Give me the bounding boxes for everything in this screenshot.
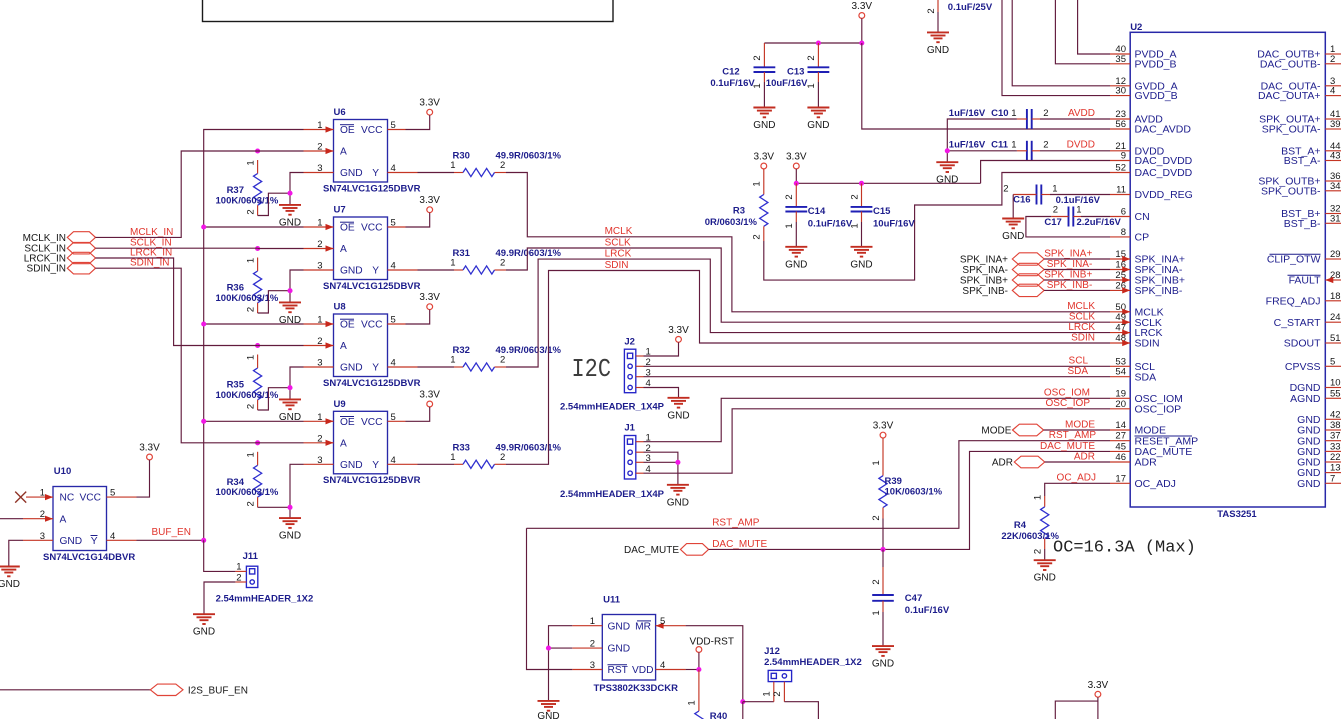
node junction (U8 OE)	[201, 321, 206, 326]
wire C11 pin1 branch	[947, 150, 1017, 152]
U2 pin 8 CP	[1110, 227, 1149, 244]
U2 pin 2 DAC_OUTB-	[1260, 54, 1341, 71]
svg-text:A: A	[60, 514, 67, 525]
svg-text:GND: GND	[608, 621, 631, 632]
capacitor C16 0.1uF/16V	[1003, 183, 1100, 206]
wire U8 Y to R32	[418, 366, 455, 368]
port SPK_INA+	[960, 253, 1044, 266]
svg-text:3: 3	[317, 163, 322, 174]
svg-text:SPK_INB+: SPK_INB+	[960, 276, 1008, 287]
wire U6 A junction to pin 2	[258, 150, 304, 152]
capacitor C17 2.2uF/16V	[1044, 204, 1121, 228]
svg-text:LRCK: LRCK	[1068, 322, 1095, 333]
wire J2 pin4 to ground	[644, 388, 679, 398]
svg-text:1: 1	[450, 355, 455, 366]
svg-text:OSC_IOM: OSC_IOM	[1044, 388, 1090, 399]
svg-text:1: 1	[762, 691, 773, 696]
svg-text:2: 2	[752, 55, 763, 60]
U2 pin 56 DAC_AVDD	[1110, 119, 1191, 136]
svg-text:1: 1	[590, 616, 595, 627]
svg-text:43: 43	[1330, 151, 1341, 162]
wire U10 GND to ground	[9, 540, 23, 566]
svg-text:C10: C10	[991, 108, 1008, 119]
wire MCLK_IN to U6 A	[96, 151, 258, 237]
svg-text:20: 20	[1115, 399, 1126, 410]
U2 pin 31 BST_B-	[1284, 213, 1341, 230]
wire OC_ADJ (R4 to U2 pin 17)	[1045, 483, 1110, 496]
svg-text:C13: C13	[787, 67, 804, 78]
svg-text:42: 42	[1330, 409, 1341, 420]
ground (U8)	[279, 399, 301, 423]
U2 pin 29 CLIP_OTW	[1267, 249, 1341, 266]
svg-text:SDA: SDA	[1135, 371, 1157, 383]
svg-text:VDD: VDD	[632, 665, 654, 676]
node junction (C15 top)	[859, 181, 864, 186]
ground (U9)	[279, 518, 301, 542]
svg-text:52: 52	[1115, 163, 1126, 174]
svg-text:Y: Y	[372, 363, 379, 374]
svg-text:10uF/16V: 10uF/16V	[766, 78, 808, 89]
svg-text:1: 1	[450, 160, 455, 171]
svg-text:4: 4	[391, 358, 396, 369]
svg-text:1: 1	[245, 160, 256, 165]
U2 pin 27 RESET_AMP	[1110, 431, 1198, 448]
svg-text:2: 2	[784, 194, 795, 199]
wire AVDD to U2	[1040, 118, 1110, 120]
svg-text:SPK_INA+: SPK_INA+	[960, 255, 1008, 266]
buffer U6 SN74LVC1G125DBVR	[304, 107, 421, 194]
U2 pin 1 DAC_OUTB+	[1257, 44, 1341, 61]
U2 pin 48 SDIN	[1110, 333, 1160, 350]
svg-text:SDIN_IN: SDIN_IN	[130, 258, 169, 269]
svg-text:SPK_INB+: SPK_INB+	[1044, 269, 1092, 280]
capacitor C12 0.1uF/16V	[710, 43, 775, 89]
svg-text:OC_ADJ: OC_ADJ	[1057, 473, 1096, 484]
U2 pin 19 OSC_IOM	[1110, 388, 1183, 405]
svg-text:DVDD: DVDD	[1067, 140, 1095, 151]
svg-text:2: 2	[245, 501, 256, 506]
svg-text:U10: U10	[54, 466, 71, 477]
svg-text:1: 1	[450, 258, 455, 269]
U2 pin 51 SDOUT	[1284, 333, 1341, 350]
port SPK_INB-	[962, 284, 1044, 297]
svg-text:3.3V: 3.3V	[419, 292, 440, 303]
power 3.3V (J2 pin 1)	[668, 325, 689, 342]
node junction (C10/C11 ground)	[945, 148, 950, 153]
svg-text:C15: C15	[873, 206, 891, 217]
svg-text:2: 2	[317, 142, 322, 153]
svg-text:GND: GND	[193, 627, 215, 638]
svg-text:SPK_INB-: SPK_INB-	[1047, 280, 1093, 291]
svg-text:4: 4	[660, 660, 665, 671]
resistor R33 49.9R/0603/1%	[450, 442, 561, 468]
svg-text:NC: NC	[60, 493, 75, 504]
svg-text:9: 9	[1121, 151, 1126, 162]
svg-text:VCC: VCC	[79, 493, 101, 504]
svg-text:GND: GND	[537, 711, 559, 719]
svg-text:3.3V: 3.3V	[668, 325, 689, 336]
svg-text:0R/0603/1%: 0R/0603/1%	[705, 217, 758, 228]
svg-text:GND: GND	[753, 120, 775, 131]
node junction (U9 OE)	[201, 419, 206, 424]
wire C15 to ground	[861, 222, 863, 247]
svg-text:3: 3	[317, 261, 322, 272]
U2 pin 26 SPK_INB-	[1110, 280, 1183, 297]
svg-text:GND: GND	[340, 266, 363, 277]
svg-text:DAC_DVDD: DAC_DVDD	[1135, 167, 1193, 179]
svg-text:Y: Y	[372, 460, 379, 471]
node junction (VDD-RST)	[696, 667, 701, 672]
ground (R4)	[1034, 560, 1056, 584]
svg-text:1: 1	[849, 223, 860, 228]
svg-text:2: 2	[317, 336, 322, 347]
capacitor C10 1uF/16V	[949, 108, 1049, 129]
wire U7 OE branch	[204, 226, 304, 228]
svg-text:MR: MR	[635, 621, 651, 632]
wire U11 MR to J12	[686, 626, 743, 702]
svg-text:SPK_OUTA-: SPK_OUTA-	[1262, 124, 1321, 136]
U2 pin 20 OSC_IOP	[1110, 399, 1181, 416]
svg-text:GND: GND	[340, 363, 363, 374]
IC U11 TPS3802K33DCKR	[572, 595, 685, 694]
power 3.3V (C12/C13 rail)	[852, 1, 873, 18]
svg-text:5: 5	[391, 412, 396, 423]
node junction on U9 A input	[255, 440, 260, 445]
port ADR	[992, 456, 1045, 468]
svg-text:2: 2	[926, 8, 937, 13]
power 3.3V (U9 VCC)	[419, 390, 440, 407]
U2 pin 46 ADR	[1110, 452, 1157, 469]
svg-text:1: 1	[1011, 140, 1016, 151]
svg-text:C17: C17	[1044, 217, 1061, 228]
power 3.3V (U6 VCC)	[419, 98, 440, 115]
connector J11 2.54mmHEADER_1X2	[216, 551, 314, 605]
svg-text:SDIN: SDIN	[1071, 332, 1095, 343]
wire 0.1uF/25V to ground	[937, 12, 939, 32]
capacitor C15 10uF/16V	[849, 183, 915, 229]
svg-text:1: 1	[1052, 183, 1057, 194]
capacitor C47 0.1uF/16V	[871, 549, 950, 616]
svg-text:46: 46	[1115, 452, 1126, 463]
svg-text:1: 1	[806, 83, 817, 88]
U2 pin 41 SPK_OUTA+	[1259, 109, 1341, 126]
svg-text:OSC_IOP: OSC_IOP	[1135, 403, 1182, 415]
U2 pin 28 FAULT	[1288, 270, 1341, 287]
svg-text:3: 3	[40, 531, 45, 542]
svg-text:22: 22	[1330, 452, 1341, 463]
svg-text:U7: U7	[334, 205, 346, 216]
svg-text:AVDD: AVDD	[1068, 108, 1095, 119]
wire GVDD_A from top edge to U2	[1012, 0, 1110, 86]
svg-text:2: 2	[1053, 204, 1058, 215]
svg-text:SPK_INA-: SPK_INA-	[1047, 259, 1093, 270]
svg-text:4: 4	[391, 261, 396, 272]
svg-text:0.1uF/25V: 0.1uF/25V	[948, 2, 993, 13]
U2 pin 5 CPVSS	[1285, 356, 1341, 373]
node junction (BUF_EN)	[201, 538, 206, 543]
node junction on U8 A input	[255, 343, 260, 348]
ground (C10/C11)	[936, 162, 958, 186]
svg-text:GND: GND	[1297, 478, 1321, 490]
svg-text:2: 2	[1043, 140, 1048, 151]
node junction (U9 ground)	[287, 505, 292, 510]
power 3.3V (C14/C15 rail)	[786, 152, 807, 169]
wire SCL (J2 pin2 to U2 pin 53)	[644, 365, 1111, 367]
svg-text:2: 2	[500, 452, 505, 463]
svg-text:2.54mmHEADER_1X2: 2.54mmHEADER_1X2	[216, 594, 314, 605]
svg-text:U8: U8	[334, 302, 346, 313]
U2 pin 16 SPK_INA-	[1110, 260, 1183, 277]
svg-text:1uF/16V: 1uF/16V	[949, 108, 986, 119]
wire LRCK net (R32 out to U2 pin 47)	[506, 259, 1110, 367]
ground (U6)	[279, 205, 301, 229]
wire C16 to U2 pin 11	[1050, 194, 1110, 196]
wire 3.3V to U8 pin 5	[406, 310, 430, 324]
svg-text:8: 8	[1121, 227, 1126, 238]
svg-text:1uF/16V: 1uF/16V	[949, 140, 986, 151]
svg-text:FAULT: FAULT	[1289, 275, 1321, 287]
svg-text:GVDD_B: GVDD_B	[1135, 90, 1178, 102]
svg-text:1: 1	[317, 412, 322, 423]
svg-text:J1: J1	[624, 423, 635, 434]
svg-text:SDOUT: SDOUT	[1284, 338, 1321, 350]
svg-text:1: 1	[450, 452, 455, 463]
ground (U7)	[279, 302, 301, 326]
svg-text:1: 1	[871, 610, 882, 615]
svg-text:37: 37	[1330, 431, 1341, 442]
buffer U8 SN74LVC1G125DBVR	[304, 302, 421, 389]
port SDIN_IN (off-page connector)	[27, 263, 96, 275]
svg-text:2: 2	[1033, 549, 1044, 554]
wire OSC_IOM (J1 pin1 to U2 pin 19)	[644, 398, 1111, 441]
wire OSC_IOP (J1 pin4 to U2 pin 20)	[644, 409, 1111, 473]
node junction (C13 top)	[816, 40, 821, 45]
svg-text:2: 2	[871, 579, 882, 584]
svg-text:3: 3	[317, 455, 322, 466]
svg-text:AGND: AGND	[1290, 393, 1321, 405]
power flag VDD-RST	[690, 637, 734, 653]
svg-text:4: 4	[391, 163, 396, 174]
svg-text:24: 24	[1330, 312, 1341, 323]
wire 3.3V rail to C12/C13 and DAC_AVDD	[764, 18, 861, 43]
svg-text:ADR: ADR	[1074, 451, 1095, 462]
wire DAC_DVDD pin 9 riser	[981, 161, 1110, 184]
wire U7 GND pin to ground	[290, 270, 304, 302]
svg-text:PVDD_B: PVDD_B	[1135, 58, 1177, 70]
svg-text:DAC_OUTA+: DAC_OUTA+	[1258, 90, 1321, 102]
resistor R31 49.9R/0603/1%	[450, 248, 561, 274]
svg-text:R3: R3	[733, 206, 745, 217]
resistor R36 100K/0603/1%	[216, 258, 279, 314]
svg-text:GND: GND	[872, 659, 894, 670]
svg-text:2: 2	[245, 307, 256, 312]
U2 pin 32 BST_B+	[1281, 204, 1341, 221]
svg-text:2: 2	[1043, 108, 1048, 119]
U2 pin 40 PVDD_A	[1110, 44, 1177, 61]
wire 3.3V to U10 VCC	[137, 460, 150, 497]
svg-text:39: 39	[1330, 119, 1341, 130]
svg-text:CPVSS: CPVSS	[1285, 361, 1321, 373]
wire U9 Y to R33	[418, 463, 455, 465]
U2 pin 42 GND	[1297, 409, 1341, 426]
svg-text:SCLK: SCLK	[1069, 312, 1095, 323]
U2 pin 12 GVDD_A	[1110, 76, 1178, 93]
svg-text:GND: GND	[608, 644, 631, 655]
wire U8 GND pin to ground	[290, 367, 304, 399]
svg-text:19: 19	[1115, 388, 1126, 399]
svg-text:BST_A-: BST_A-	[1284, 155, 1321, 167]
wire R34 bottom to ground net	[258, 506, 290, 508]
wire DAC_MUTE net to U2 pin 45	[709, 451, 1110, 549]
svg-text:RST_AMP: RST_AMP	[1049, 430, 1097, 441]
connector J1 2.54mmHEADER_1X4P	[560, 423, 665, 500]
wire U11 GND pins to ground	[549, 626, 573, 701]
wire R4 to ground	[1044, 549, 1046, 560]
wire MCLK net (R30 out to U2 pin 50)	[506, 173, 1110, 312]
svg-text:4: 4	[110, 531, 115, 542]
svg-text:SDA: SDA	[1067, 366, 1088, 377]
svg-text:SDIN_IN: SDIN_IN	[27, 264, 66, 275]
U2 pin 3 DAC_OUTA-	[1261, 76, 1341, 93]
svg-text:1: 1	[245, 452, 256, 457]
svg-text:MCLK: MCLK	[1067, 301, 1095, 312]
svg-text:2: 2	[500, 258, 505, 269]
svg-text:6: 6	[1121, 207, 1126, 218]
svg-text:2: 2	[500, 355, 505, 366]
svg-text:U6: U6	[334, 107, 346, 118]
svg-text:4: 4	[1330, 86, 1335, 97]
wire C16 pin 2 to ground	[1012, 195, 1014, 219]
wire R39 to DAC_MUTE node	[882, 519, 884, 550]
ground (U11)	[537, 701, 559, 719]
wire U7 A junction to pin 2	[258, 248, 304, 250]
U2 pin 6 CN	[1110, 207, 1150, 224]
wire J2 pin1 to 3.3V	[644, 342, 679, 356]
svg-text:54: 54	[1115, 367, 1126, 378]
resistor R4 22K/0603/1%	[1001, 495, 1059, 554]
resistor R32 49.9R/0603/1%	[450, 345, 561, 371]
svg-text:49.9R/0603/1%: 49.9R/0603/1%	[496, 345, 562, 356]
svg-text:J12: J12	[764, 646, 780, 657]
node junction (J1 ground)	[675, 460, 680, 465]
ground (J11)	[193, 614, 215, 638]
svg-text:2: 2	[245, 404, 256, 409]
svg-text:10uF/16V: 10uF/16V	[873, 218, 915, 229]
ground (J1)	[667, 485, 689, 509]
svg-text:22K/0603/1%: 22K/0603/1%	[1001, 531, 1059, 542]
svg-text:CN: CN	[1135, 211, 1150, 223]
svg-text:J11: J11	[243, 551, 259, 562]
U2 pin 55 AGND	[1290, 388, 1341, 405]
wire J1 pins 2,3 to ground	[644, 452, 678, 485]
U2 pin 9 DAC_DVDD	[1110, 151, 1193, 168]
svg-text:53: 53	[1115, 356, 1126, 367]
U2 pin 38 GND	[1297, 420, 1341, 437]
title block box (partial, top edge)	[203, 0, 614, 22]
wire U9 A junction to pin 2	[258, 442, 304, 444]
svg-text:10K/0603/1%: 10K/0603/1%	[885, 486, 943, 497]
IC U2 TAS3251	[1130, 22, 1325, 520]
wire 3.3V rail C14/C15	[796, 169, 980, 183]
svg-text:VCC: VCC	[361, 417, 383, 428]
node junction (U11 ground)	[546, 646, 551, 651]
svg-text:SDIN: SDIN	[605, 260, 629, 271]
svg-text:3.3V: 3.3V	[1088, 680, 1109, 691]
power 3.3V (U10)	[139, 443, 160, 460]
svg-text:VCC: VCC	[361, 125, 383, 136]
svg-text:C_START: C_START	[1274, 317, 1321, 329]
power 3.3V (U7 VCC)	[419, 195, 440, 212]
svg-text:I2S_BUF_EN: I2S_BUF_EN	[188, 685, 248, 696]
wire I2S_BUF_EN (from page left)	[0, 689, 150, 691]
U2 pin 15 SPK_INA+	[1110, 249, 1185, 266]
svg-text:1: 1	[687, 700, 698, 705]
U2 pin 43 BST_A-	[1284, 151, 1341, 168]
svg-text:3: 3	[317, 358, 322, 369]
U2 pin 25 SPK_INB+	[1110, 270, 1185, 287]
wire bottom-right 3.3V	[1097, 697, 1099, 719]
svg-text:1: 1	[317, 315, 322, 326]
wire BUF_EN (U10 Y to OE rail)	[137, 539, 204, 541]
ground (J2)	[667, 398, 689, 422]
svg-text:GND: GND	[927, 45, 949, 56]
svg-text:GND: GND	[60, 536, 83, 547]
svg-text:J2: J2	[624, 336, 635, 347]
svg-text:SN74LVC1G125DBVR: SN74LVC1G125DBVR	[323, 281, 421, 292]
node junction (R39 / DAC_MUTE / C47)	[880, 547, 885, 552]
resistor R40 (partial, bottom edge)	[687, 670, 728, 719]
svg-text:ADR: ADR	[1135, 457, 1158, 469]
svg-text:3.3V: 3.3V	[873, 421, 894, 432]
wire PVDD_B from top edge to U2	[1055, 0, 1110, 64]
U2 pin 36 SPK_OUTB+	[1258, 171, 1341, 188]
svg-text:3.3V: 3.3V	[852, 1, 873, 12]
svg-text:OE: OE	[340, 125, 355, 136]
wire C17 pin2 to U2 CP pin 8	[1026, 217, 1110, 237]
svg-text:2: 2	[752, 234, 763, 239]
svg-text:TAS3251: TAS3251	[1217, 509, 1257, 520]
svg-text:5: 5	[391, 120, 396, 131]
wire U8 A junction to pin 2	[258, 345, 304, 347]
ground (C47)	[872, 646, 894, 670]
node junction on U7 A input	[255, 246, 260, 251]
svg-text:SN74LVC1G14DBVR: SN74LVC1G14DBVR	[43, 552, 135, 563]
wire SPK_INB+ to U2	[1044, 279, 1110, 281]
svg-text:VCC: VCC	[361, 320, 383, 331]
svg-text:OSC_IOP: OSC_IOP	[1046, 398, 1091, 409]
svg-text:SCLK: SCLK	[605, 237, 631, 248]
svg-text:4: 4	[391, 455, 396, 466]
svg-text:10: 10	[1330, 378, 1341, 389]
svg-text:GND: GND	[850, 259, 872, 270]
U2 pin 52 DAC_DVDD	[1110, 163, 1193, 180]
svg-text:DAC_OUTB-: DAC_OUTB-	[1260, 58, 1321, 70]
svg-text:3.3V: 3.3V	[419, 98, 440, 109]
svg-text:GND: GND	[936, 175, 958, 186]
connector J12 2.54mmHEADER_1X2	[762, 646, 862, 702]
svg-text:2: 2	[236, 573, 241, 584]
capacitor C13 10uF/16V	[766, 43, 830, 89]
U2 pin 4 DAC_OUTA+	[1258, 86, 1341, 103]
svg-text:LRCK: LRCK	[605, 249, 632, 260]
ground (C13)	[807, 108, 829, 132]
svg-text:1: 1	[1076, 204, 1081, 215]
svg-text:C12: C12	[722, 67, 739, 78]
svg-text:OC_ADJ: OC_ADJ	[1135, 478, 1176, 490]
wire SCLK net (R31 out to U2 pin 49)	[506, 248, 1110, 322]
svg-text:3.3V: 3.3V	[754, 152, 775, 163]
wire SDIN net (R33 out to U2 pin 48)	[506, 271, 1110, 465]
